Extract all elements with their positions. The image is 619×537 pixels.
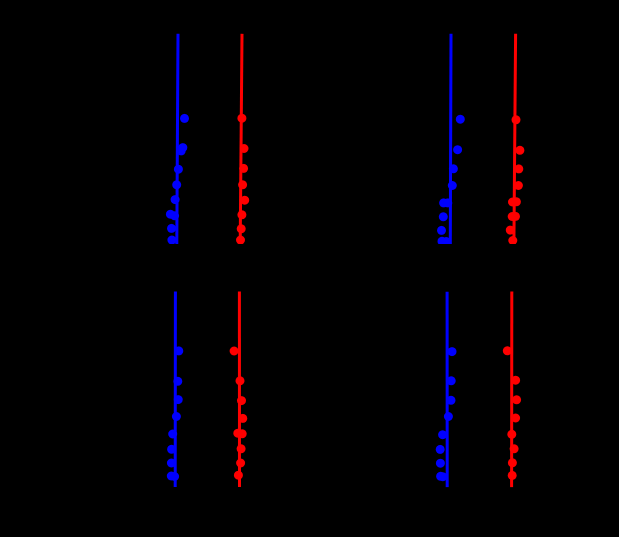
bottom-left subplot: blue fit line <box>174 292 177 488</box>
TR blue point 1 <box>456 115 465 124</box>
BR red point 4 <box>511 414 520 423</box>
TR blue point 3 <box>449 164 458 173</box>
top-right red data points <box>506 115 525 245</box>
TR red point 5a <box>508 198 517 207</box>
bottom-right red data points <box>503 346 521 480</box>
BL blue point 1 <box>174 346 183 355</box>
top-right blue data points <box>437 115 465 246</box>
TR blue point 5b <box>443 198 452 207</box>
BR blue point 8b <box>438 472 447 481</box>
BR red point 3 <box>512 395 521 404</box>
TL blue point 6a <box>166 210 175 219</box>
TR red point 2 <box>515 146 524 155</box>
BR red point 2 <box>511 376 520 385</box>
TR red point 8 <box>508 236 517 245</box>
TL red point 6 <box>237 210 246 219</box>
BR blue point 1 <box>448 347 457 356</box>
bottom-right subplot: blue fit line <box>446 292 449 487</box>
BR red point 6 <box>510 444 519 453</box>
BR blue point 6 <box>436 445 445 454</box>
TL red point 2 <box>240 144 249 153</box>
TL blue point 5 <box>171 195 180 204</box>
TR blue point 4 <box>448 181 457 190</box>
BR red point 7 <box>508 458 517 467</box>
BL blue point 5 <box>168 430 177 439</box>
TR blue point 8b <box>442 237 451 246</box>
TL red point 8 <box>236 236 245 245</box>
TL blue point 4 <box>172 180 181 189</box>
TL blue point 1 <box>180 114 189 123</box>
TR red point 6a <box>508 212 517 221</box>
BL red point 2 <box>236 376 245 385</box>
TR red point 1 <box>512 115 521 124</box>
BL blue point 4 <box>172 412 181 421</box>
TR red point 6b <box>511 212 520 221</box>
top-left subplot: red fit line <box>240 34 242 244</box>
BR red point 8 <box>508 471 517 480</box>
BR red point 1 <box>503 346 512 355</box>
BL red point 1 <box>230 347 239 356</box>
BL red point 8 <box>234 471 243 480</box>
BL red point 7 <box>236 459 245 468</box>
TL blue point 3 <box>174 165 183 174</box>
TL blue point 2a <box>178 143 187 152</box>
TR red point 3 <box>514 164 523 173</box>
BL blue point 8b <box>170 472 179 481</box>
BR red point 5 <box>507 430 516 439</box>
TL blue point 7 <box>167 224 176 233</box>
TR blue point 6 <box>439 212 448 221</box>
BL blue point 2 <box>173 377 182 386</box>
BL red point 6 <box>237 444 246 453</box>
TL red point 1 <box>237 114 246 123</box>
BL red point 4 <box>238 414 247 423</box>
top-left blue data points <box>166 114 189 245</box>
TR blue point 7 <box>437 226 446 235</box>
BR blue point 2 <box>447 376 456 385</box>
TL blue point 2b <box>177 146 186 155</box>
bottom-right subplot: red fit line <box>510 292 513 488</box>
BR blue point 7 <box>436 459 445 468</box>
top-left subplot: blue fit line <box>177 34 178 244</box>
TR red point 7 <box>506 226 515 235</box>
BL blue point 8a <box>167 472 176 481</box>
BR blue point 8a <box>436 472 445 481</box>
BL blue point 3 <box>174 395 183 404</box>
TL red point 7 <box>237 224 246 233</box>
bottom-right blue data points <box>436 347 457 481</box>
BL blue point 6 <box>167 445 176 454</box>
top-left red data points <box>236 114 249 245</box>
TR blue point 2 <box>453 145 462 154</box>
BL blue point 7 <box>167 459 176 468</box>
BR blue point 3 <box>447 396 456 405</box>
TR blue point 8a <box>438 237 447 246</box>
bottom-left blue data points <box>167 346 184 481</box>
TR blue point 5a <box>439 198 448 207</box>
TR red point 4 <box>514 181 523 190</box>
top-right subplot: red fit line <box>514 34 516 244</box>
TL red point 4 <box>238 180 247 189</box>
BR blue point 4 <box>444 412 453 421</box>
TL blue point 6b <box>170 211 179 220</box>
top-right subplot: blue fit line <box>449 34 453 244</box>
TL red point 3 <box>239 164 248 173</box>
TR red point 5b <box>512 197 521 206</box>
bottom-left red data points <box>230 347 248 480</box>
BL red point 5b <box>238 429 247 438</box>
TL blue point 8 <box>167 236 176 245</box>
BR blue point 5 <box>438 430 447 439</box>
TL red point 5 <box>240 196 249 205</box>
BL red point 5a <box>233 429 242 438</box>
bottom-left subplot: red fit line <box>238 292 241 488</box>
BL red point 3 <box>237 396 246 405</box>
